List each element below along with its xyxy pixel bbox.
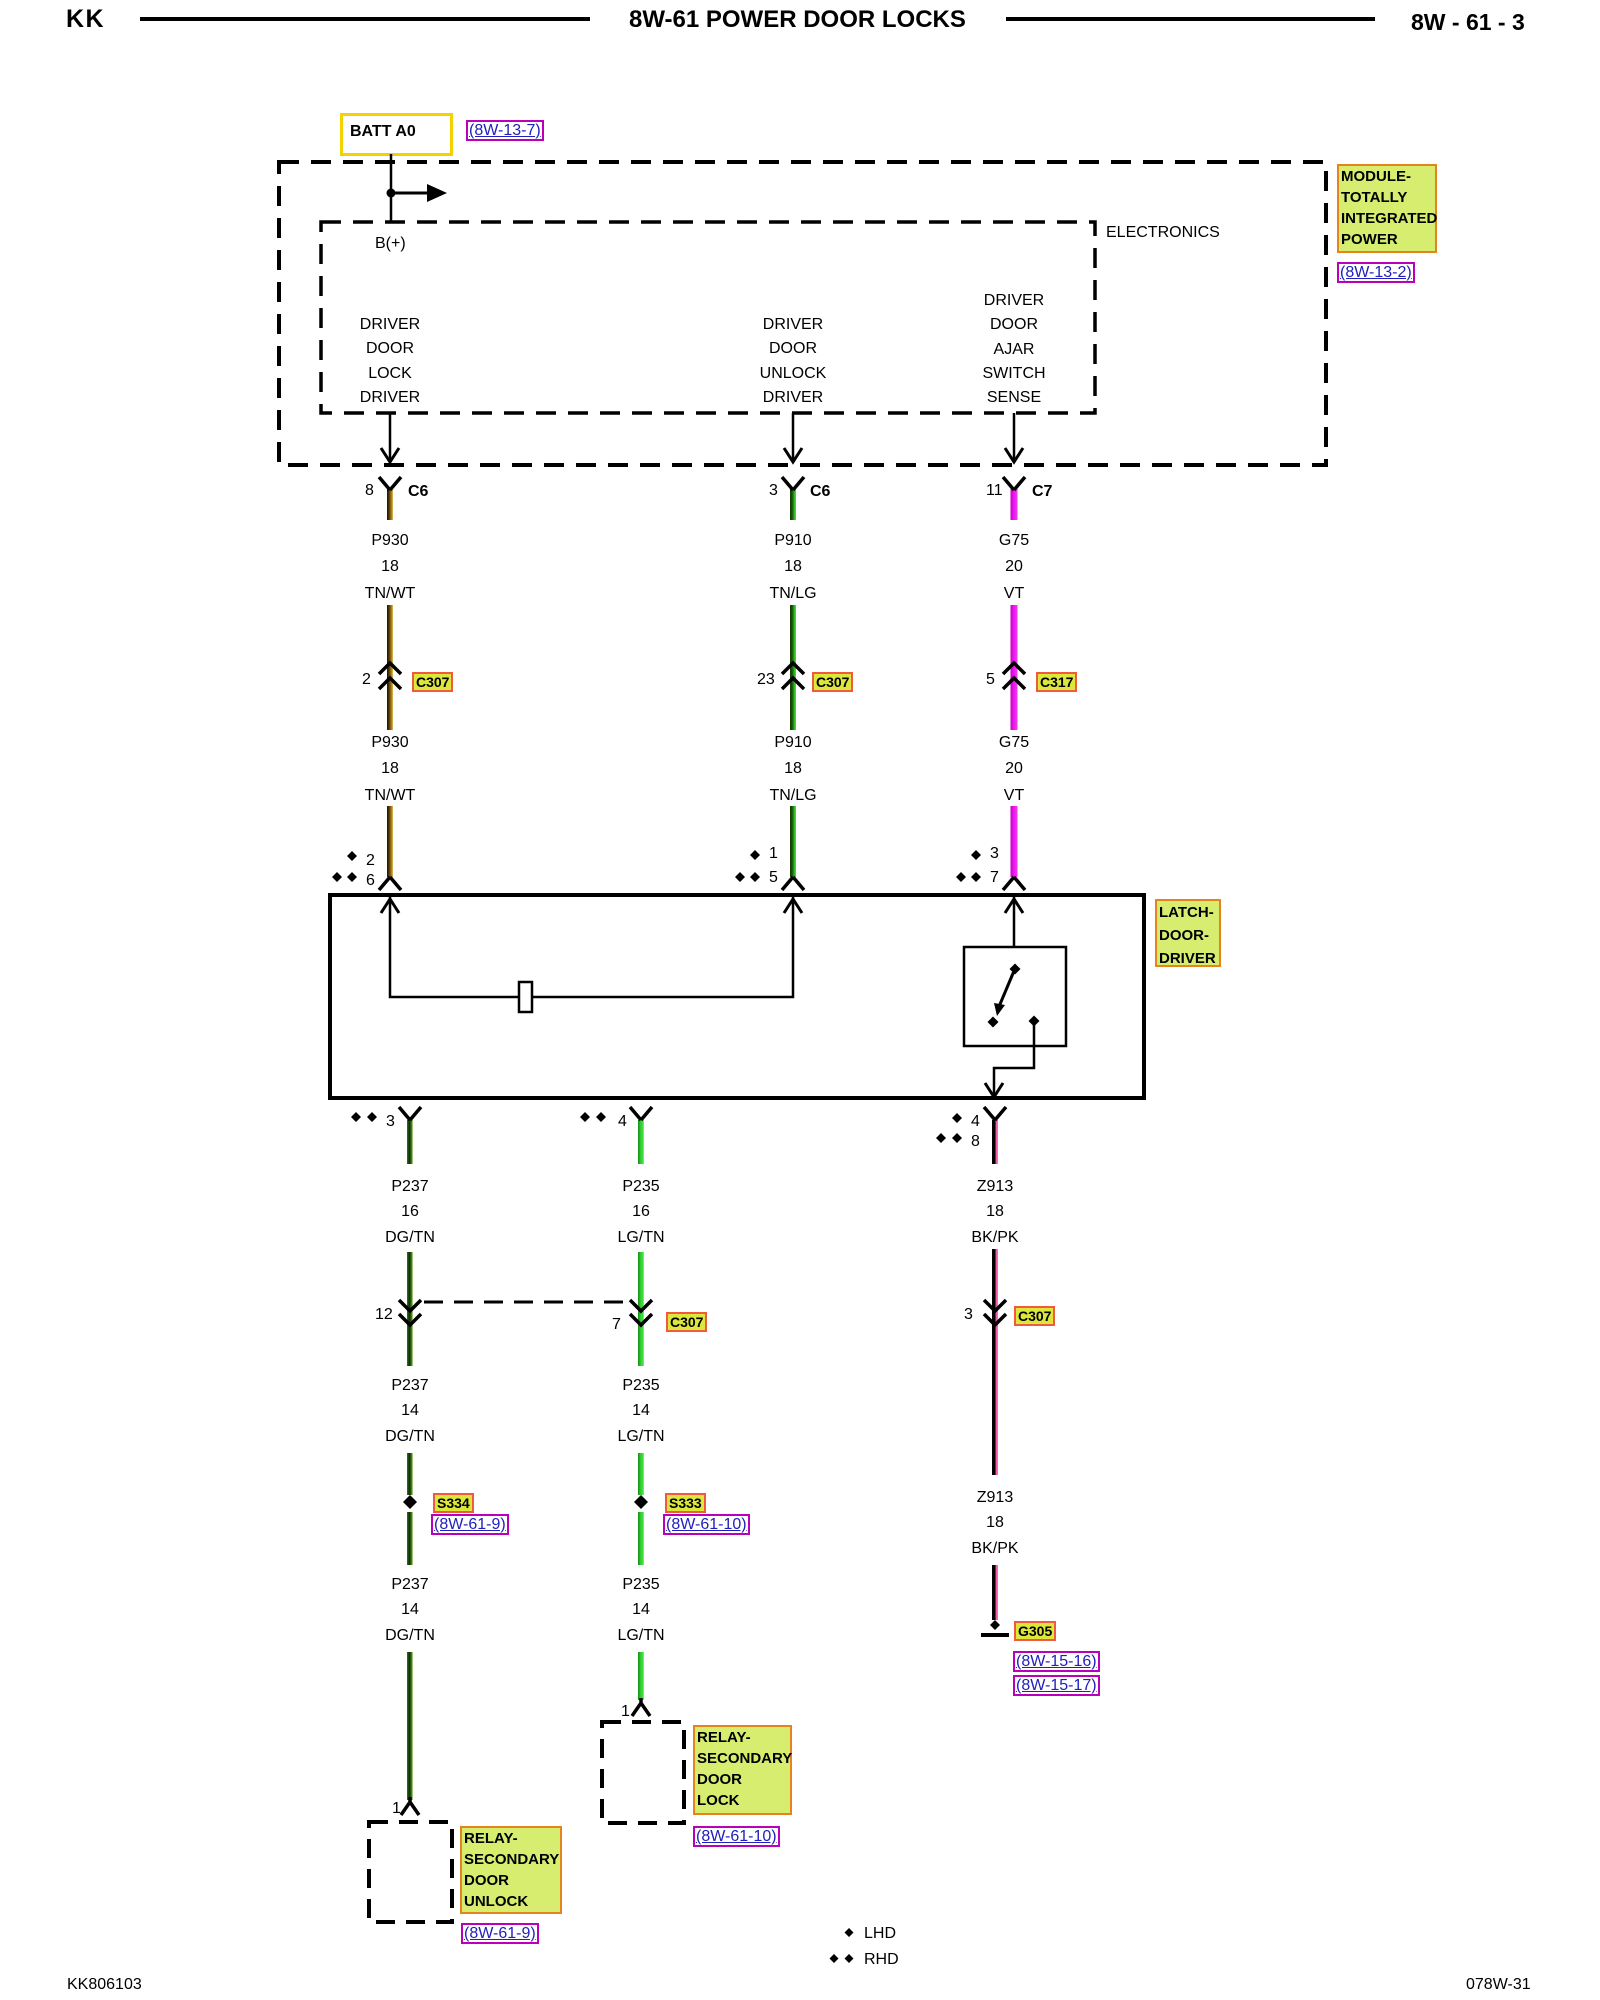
chevrons C307 wire A	[379, 663, 401, 689]
pin 11 / connector C7	[986, 482, 1003, 499]
actuator element	[519, 982, 532, 1012]
chevrons C307 wire F	[984, 1300, 1006, 1325]
fork below latch wire D	[399, 1107, 421, 1120]
switch contact right	[1029, 1016, 1040, 1027]
connector C307 label right	[1014, 1306, 1055, 1326]
down arrow ajar switch	[1013, 413, 1016, 461]
wire G75 seg3	[1011, 806, 1018, 877]
fork into latch wire C	[1003, 877, 1025, 890]
splice S334 label	[433, 1493, 474, 1513]
fork C6 unlock	[782, 477, 804, 490]
arrow to right	[391, 192, 430, 195]
up arrowhead C	[1005, 899, 1023, 913]
ELECTRONICS label	[1106, 224, 1220, 241]
latch door driver label	[1155, 899, 1221, 967]
wire label Z913 18 BK/PK	[971, 1174, 1018, 1250]
link 8W-13-2	[1337, 262, 1415, 283]
junction dot	[387, 189, 396, 198]
fork below latch wire E	[630, 1107, 652, 1120]
chevrons C307 wire E	[630, 1300, 652, 1325]
fork below latch wire F	[984, 1107, 1006, 1120]
link 8W-61-10 mid	[663, 1514, 750, 1535]
wire P237 seg4	[407, 1512, 413, 1565]
pin 1 relay unlock	[392, 1800, 401, 1817]
connector C307 label 2	[812, 672, 853, 692]
pins 2/6 into latch	[366, 852, 375, 869]
wire P235 seg4	[638, 1512, 644, 1565]
connector C307 label bottom	[666, 1312, 707, 1332]
pin text DRIVER DOOR LOCK DRIVER	[360, 313, 420, 410]
wire label P910 18 TN/LG	[769, 528, 816, 607]
wire P235 seg5	[638, 1652, 644, 1700]
wire P910 seg3	[790, 806, 796, 877]
up arrowhead A	[381, 899, 399, 913]
pin 5 at C317	[986, 671, 995, 688]
diamonds wire E	[580, 1112, 606, 1122]
wire label P237 16 DG/TN	[385, 1174, 435, 1250]
legend LHD	[864, 1925, 896, 1942]
fork C7	[1003, 477, 1025, 490]
diamonds wire B pins	[735, 850, 760, 882]
relay secondary door unlock label	[460, 1826, 562, 1914]
fork relay lock	[632, 1698, 650, 1716]
module TIPM label	[1337, 164, 1437, 253]
chevrons C307 wire D	[399, 1300, 421, 1325]
wire P910 seg1	[790, 489, 796, 520]
ajar switch box	[964, 947, 1066, 1046]
up arrowhead B	[784, 899, 802, 913]
ground G305 symbol	[990, 1620, 1000, 1630]
diamonds wire D	[351, 1112, 377, 1122]
wire P237 seg2	[407, 1252, 413, 1366]
link 8W-13-7	[466, 120, 544, 141]
diamonds wire A pins	[332, 851, 357, 882]
diamonds wire F	[936, 1113, 962, 1143]
fork relay unlock	[401, 1797, 419, 1815]
node B(+)	[375, 235, 406, 252]
wire P237 seg5	[407, 1652, 413, 1800]
wire label P235 14 LG/TN low	[617, 1572, 664, 1648]
relay lock dashed box	[602, 1722, 684, 1823]
wire label P237 14 DG/TN low	[385, 1572, 435, 1648]
down arrowhead out	[985, 1083, 1003, 1097]
relay secondary door lock label	[693, 1725, 792, 1815]
wire from battery	[390, 154, 393, 222]
battery feed BATT A0	[340, 113, 453, 156]
wire P237 seg1	[407, 1120, 413, 1164]
switch contact left	[988, 1017, 999, 1028]
ajar switch feed line	[1013, 897, 1016, 947]
link 8W-15-16	[1013, 1651, 1100, 1672]
splice S334 diamond	[403, 1495, 417, 1509]
footer	[67, 1976, 142, 1993]
relay unlock dashed box	[369, 1822, 452, 1922]
down arrow lock driver	[389, 413, 392, 461]
wire P237 seg3	[407, 1453, 413, 1495]
down arrow unlock driver	[792, 413, 795, 461]
wire label P235 14 LG/TN	[617, 1373, 664, 1449]
pin 8 / connector C6	[365, 482, 374, 499]
wire Z913 seg1	[992, 1120, 998, 1164]
ground G305 label	[1014, 1621, 1056, 1641]
link 8W-15-17	[1013, 1675, 1100, 1696]
switch pivot	[1010, 964, 1021, 975]
wire P930 seg1	[387, 489, 393, 520]
pin text DRIVER DOOR UNLOCK DRIVER	[760, 313, 827, 410]
chevrons C317 wire C	[1003, 663, 1025, 689]
pin text DRIVER DOOR AJAR SWITCH SENSE	[982, 289, 1045, 410]
switch output path	[994, 1021, 1034, 1096]
pin 2 at C307	[362, 671, 371, 688]
pins 3/7 into latch	[990, 845, 999, 862]
wire G75 seg1	[1011, 489, 1018, 520]
dashed tie line	[424, 1301, 630, 1304]
wire label P235 16 LG/TN	[617, 1174, 664, 1250]
pin 23 at C307	[757, 671, 775, 688]
latch internal lock line	[390, 897, 793, 997]
wire label P930 18 TN/WT lower	[365, 730, 416, 809]
pin 1 relay lock	[621, 1703, 630, 1720]
connector C317 label	[1036, 672, 1077, 692]
TIPM outer dashed box	[279, 162, 1326, 465]
link 8W-61-9 mid	[431, 1514, 509, 1535]
latch box	[330, 895, 1144, 1098]
wire label G75 20 VT	[999, 528, 1029, 607]
wire label G75 20 VT lower	[999, 730, 1029, 809]
legend RHD	[864, 1951, 899, 1968]
wire Z913 seg4	[992, 1565, 998, 1620]
pins 1/5 into latch	[769, 845, 778, 862]
legend diamonds	[830, 1928, 854, 1963]
fork into latch wire B	[782, 877, 804, 890]
link 8W-61-10 bottom	[693, 1826, 780, 1847]
wire Z913 seg3	[992, 1323, 998, 1475]
wire P930 seg3	[387, 806, 393, 877]
pins 3 / 4 below latch	[386, 1113, 395, 1130]
wire P235 seg2	[638, 1252, 644, 1366]
wire P930 seg2	[387, 605, 393, 730]
wire label P910 18 TN/LG lower	[769, 730, 816, 809]
wire Z913 seg2	[992, 1249, 998, 1323]
wire P235 seg3	[638, 1453, 644, 1495]
pin 3 / connector C6 unlock	[769, 482, 778, 499]
wire P910 seg2	[790, 605, 796, 730]
wire label P237 14 DG/TN	[385, 1373, 435, 1449]
diamonds wire C pins	[956, 850, 981, 882]
pin 12 at C307	[375, 1306, 393, 1323]
splice S333 diamond	[634, 1495, 648, 1509]
header	[66, 7, 105, 31]
chevrons C307 wire B	[782, 663, 804, 689]
electronics inner dashed box	[321, 222, 1095, 413]
pin 3 at C307	[964, 1306, 973, 1323]
wire label P930 18 TN/WT	[365, 528, 416, 607]
wire label Z913 18 BK/PK low	[971, 1485, 1018, 1561]
fork into latch wire A	[379, 877, 401, 890]
wire G75 seg2	[1011, 605, 1018, 730]
splice S333 label	[665, 1493, 706, 1513]
wire P235 seg1	[638, 1120, 644, 1164]
connector C307 label	[412, 672, 453, 692]
fork C6 lock	[379, 477, 401, 490]
link 8W-61-9 bottom	[461, 1923, 539, 1944]
switch arm	[998, 971, 1014, 1009]
pin 7 at C307	[612, 1316, 621, 1333]
